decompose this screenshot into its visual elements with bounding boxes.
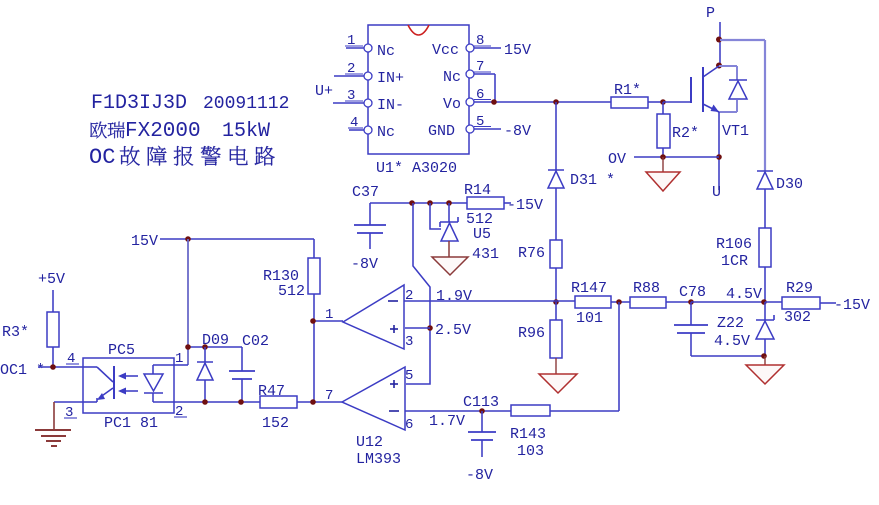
svg-text:Nc: Nc [377,43,395,60]
resistor R29 [782,297,820,309]
junction plus input node [427,325,433,331]
wire R147 to R88 [611,301,630,303]
svg-text:103: 103 [517,443,544,460]
resistor R76 [550,240,562,268]
capacitor C37 [369,203,371,225]
svg-text:OC1 *: OC1 * [0,362,45,379]
svg-text:Nc: Nc [443,69,461,86]
wire D30 drop [764,40,766,171]
junction output1 node [310,318,316,324]
junction D09 bottom [202,399,208,405]
svg-text:U12: U12 [356,434,383,451]
junction pin7/pin6 [491,99,497,105]
wire Vo to D31 [555,102,557,170]
svg-text:1CR: 1CR [721,253,748,270]
wire 15V to opto pin1 [187,239,189,365]
svg-text:7: 7 [325,388,333,404]
junction top net C [446,200,452,206]
svg-text:+5V: +5V [38,271,65,288]
wire 4.5V to R29 [765,301,782,303]
svg-text:2.5V: 2.5V [435,322,471,339]
svg-text:6: 6 [405,417,413,433]
wire C78 to ground node [691,355,765,357]
VT1 freewheel diode [719,65,737,67]
junction top net A [409,200,415,206]
junction pin1 net B [202,344,208,350]
svg-text:Vcc: Vcc [432,42,459,59]
svg-text:R47: R47 [258,383,285,400]
wire D31 to R76 [555,188,557,240]
wire R1 to gate node [648,101,663,103]
svg-text:-15V: -15V [507,197,543,214]
wire R29 to -15V [820,302,836,304]
svg-text:4.5V: 4.5V [726,286,762,303]
U1 pin 4 [349,129,364,131]
diode D30 [757,170,773,172]
svg-text:R106: R106 [716,236,752,253]
wire pin1 jog [188,346,242,348]
ground at U5 [448,241,450,257]
svg-text:U+: U+ [315,83,333,100]
wire C78 node to 4.5V node [691,301,765,303]
resistor R47 [260,396,297,408]
U1 pin 7 [474,73,495,75]
wire 15V rail [160,238,314,240]
junction R147/R88/feedback [616,299,622,305]
svg-text:2: 2 [175,404,183,420]
wire OC1 to opto pin4 [38,366,83,368]
ground at PC5 pin3 [53,402,55,430]
svg-text:152: 152 [262,415,289,432]
U12A pin 1 [313,320,343,322]
PC5 pin 3 [54,401,83,403]
junction top net B [427,200,433,206]
U5 ref wire [430,203,441,229]
svg-text:LM393: LM393 [356,451,401,468]
resistor R88 [630,297,666,308]
junction pin1 net A [185,344,191,350]
svg-text:3: 3 [347,88,355,104]
optocoupler PC5 body [83,358,174,413]
ground at Z22 [764,356,766,365]
svg-text:1: 1 [347,33,355,49]
svg-text:20091112: 20091112 [203,94,289,114]
resistor R14 [467,197,504,209]
svg-text:C37: C37 [352,184,379,201]
svg-text:R2*: R2* [672,125,699,142]
svg-text:C78: C78 [679,284,706,301]
wire P to D30 top [720,39,765,41]
wire emitter [718,112,720,190]
wire 2.5V feed [406,203,430,384]
svg-text:R147: R147 [571,280,607,297]
wire 1.7V net [405,410,511,412]
svg-text:1.7V: 1.7V [429,413,465,430]
op-amp U1 A3020 body [368,25,469,154]
svg-text:R96: R96 [518,325,545,342]
svg-text:302: 302 [784,309,811,326]
op-amp U12B [342,367,405,430]
wire P to collector [719,22,721,66]
junction R3/OC1 [50,364,56,370]
svg-text:F1D3IJ3D: F1D3IJ3D [91,92,187,115]
svg-text:OC: OC [89,145,115,170]
capacitor C78 [690,302,692,325]
svg-text:-15V: -15V [834,297,870,314]
svg-text:Nc: Nc [377,124,395,141]
junction Vo/D31 [553,99,559,105]
junction emitter/OV [716,154,722,160]
title text line 2 [90,122,107,139]
svg-text:1: 1 [325,307,333,323]
svg-text:5: 5 [476,114,484,130]
svg-text:VT1: VT1 [722,123,749,140]
svg-text:7: 7 [476,59,484,75]
svg-text:C113: C113 [463,394,499,411]
resistor R3* [52,290,54,312]
svg-text:Vo: Vo [443,96,461,113]
wire 2.5V top net [370,202,467,204]
wire R143 to feedback [550,410,619,412]
diode D09 [204,347,206,362]
svg-text:512: 512 [278,283,305,300]
PC5 pin 1 [174,364,188,366]
svg-text:R88: R88 [633,280,660,297]
svg-text:1.9V: 1.9V [436,288,472,305]
svg-text:PC1 81: PC1 81 [104,415,158,432]
svg-text:R29: R29 [786,280,813,297]
svg-text:D09: D09 [202,332,229,349]
svg-text:D30: D30 [776,176,803,193]
svg-text:4.5V: 4.5V [714,333,750,350]
svg-text:15kW: 15kW [222,120,270,143]
wire 1.9V net [404,300,575,302]
U1 pin 2 [334,75,364,77]
svg-text:R14: R14 [464,182,491,199]
PC5 phototransistor [113,366,115,399]
wire R14 to -15V [504,202,511,204]
wire feedback vertical [618,302,620,411]
svg-text:R1*: R1* [614,82,641,99]
svg-text:4: 4 [67,351,75,367]
U1 pin 6 [474,101,494,103]
svg-text:R143: R143 [510,426,546,443]
junction 4.5V node [761,299,767,305]
junction C113 [479,408,485,414]
svg-text:4: 4 [350,115,358,131]
U12A pin 3 [405,327,430,329]
svg-text:PC5: PC5 [108,342,135,359]
capacitor C113 [481,411,483,432]
junction 1.9V/R76/R96 [553,299,559,305]
svg-text:OV: OV [608,151,626,168]
svg-text:-8V: -8V [466,467,493,484]
svg-text:3: 3 [65,405,73,421]
wire pin7 to pin6 net [494,74,496,102]
svg-text:101: 101 [576,310,603,327]
wire R106 to 4.5V node [764,267,766,302]
zener Z22 [764,302,766,320]
junction C78 node [688,299,694,305]
junction gate node [660,99,666,105]
U1 pin 3 [333,102,364,104]
wire bottom rail [174,401,260,403]
wire D30 to R106 [764,189,766,228]
svg-text:R3*: R3* [2,324,29,341]
svg-text:-8V: -8V [351,256,378,273]
svg-text:15V: 15V [131,233,158,250]
resistor R106 [759,228,771,267]
ground at OV [662,157,664,172]
junction output7 node [310,399,316,405]
svg-text:15V: 15V [504,42,531,59]
svg-text:8: 8 [476,33,484,49]
resistor R147 [575,296,611,308]
svg-text:1: 1 [175,351,183,367]
PC5 light arrows [122,375,138,377]
svg-text:C02: C02 [242,333,269,350]
resistor R1* [611,97,648,108]
wire Vo net [494,101,611,103]
svg-text:-8V: -8V [504,123,531,140]
U12B pin 7 [297,401,342,403]
svg-text:U: U [712,184,721,201]
wire OV [634,156,719,158]
svg-text:3: 3 [405,334,413,350]
wire R88 to C78 [666,301,691,303]
shunt reference U5 431 [448,203,450,222]
junction collector [716,63,722,69]
U1 pin 5 [474,128,501,130]
PC5 LED [153,364,174,366]
resistor R2* [662,102,664,114]
svg-text:U5: U5 [473,226,491,243]
svg-text:Z22: Z22 [717,315,744,332]
ground at R96 [555,358,557,374]
junction R2/OV [660,154,666,160]
U1 pin 1 [346,47,364,49]
svg-text:IN+: IN+ [377,70,404,87]
resistor R143 [511,405,550,416]
junction 15V rail [185,236,191,242]
svg-text:IN-: IN- [377,97,404,114]
transistor Q VT1 IGBT [690,77,692,103]
U1 pin 8 [474,47,501,49]
resistor R130 [313,239,315,258]
svg-text:R76: R76 [518,245,545,262]
resistor R96 [550,320,562,358]
svg-text:431: 431 [472,246,499,263]
wire R76 to node [555,268,557,302]
junction ground node [761,353,767,359]
svg-text:P: P [706,5,715,22]
svg-text:D31 *: D31 * [570,172,615,189]
svg-text:6: 6 [476,87,484,103]
junction P node [716,37,722,43]
svg-text:U1* A3020: U1* A3020 [376,160,457,177]
op-amp U12A [343,285,404,349]
wire node to R96 [555,302,557,320]
junction C02 bottom [238,399,244,405]
svg-text:2: 2 [347,61,355,77]
svg-text:GND: GND [428,123,455,140]
wire gate [663,101,691,103]
svg-text:5: 5 [405,368,413,384]
capacitor C02 [241,347,243,371]
diode D31* [548,169,564,171]
svg-text:FX2000: FX2000 [125,120,201,143]
